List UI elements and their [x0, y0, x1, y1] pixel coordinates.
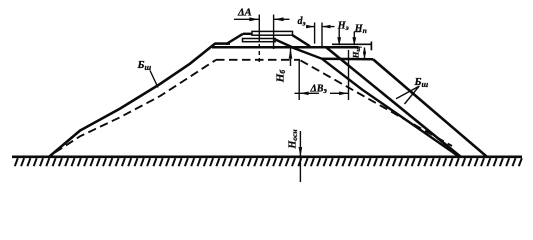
arrowhead d_e left — [322, 25, 330, 29]
old sleeper — [243, 39, 276, 42]
old profile dashed top — [216, 59, 300, 61]
brovka thin upper ledge — [332, 43, 371, 45]
svg-text:Бш: Бш — [414, 76, 429, 89]
step stub — [370, 42, 372, 51]
svg-text:Нп: Нп — [354, 23, 367, 35]
arrowhead dA right — [249, 17, 259, 21]
dim dA lines — [234, 18, 290, 20]
arrowhead H_shch down — [363, 53, 366, 59]
ground hatching — [15, 158, 522, 166]
axis 1 old — [258, 15, 260, 43]
svg-text:ΔА: ΔА — [237, 8, 252, 19]
arrowhead dBe left — [300, 92, 309, 96]
dim dBe line — [295, 92, 349, 94]
leader Bsh right fork — [396, 86, 420, 104]
dim d_e lines — [306, 26, 335, 28]
arrowhead dBe right — [339, 92, 348, 96]
H_b arrow shaft — [290, 48, 292, 66]
arrowhead H_shch up — [363, 47, 366, 53]
ledge L3 — [322, 58, 373, 61]
svg-text:dэ: dэ — [298, 16, 306, 28]
old profile dashed left slope — [55, 60, 216, 153]
svg-text:Бш: Бш — [137, 59, 152, 72]
svg-text:Нб: Нб — [275, 70, 288, 84]
subgrade top line — [212, 46, 359, 49]
H_p arrow shaft — [354, 32, 360, 44]
left bench — [215, 42, 231, 45]
new prism right slope — [293, 35, 311, 46]
dim d_e ext lines — [315, 23, 322, 48]
new sleeper — [252, 31, 293, 35]
H_shch arrow shaft — [364, 48, 366, 59]
inner long slope from junction — [292, 47, 460, 157]
arrowhead d_e right — [306, 25, 314, 29]
arrowhead H_e down — [337, 37, 341, 46]
dim dBe ext lines — [299, 50, 348, 100]
svg-text:ΔВэ: ΔВэ — [310, 83, 328, 95]
H_osn axis — [299, 131, 301, 182]
old profile dashed right slope — [301, 60, 453, 146]
svg-text:Носн: Носн — [288, 129, 300, 149]
arrowhead dA left — [274, 17, 284, 21]
H_e arrow shaft — [338, 29, 340, 44]
leader Bsh left — [150, 71, 158, 88]
arrowhead H_osn down — [299, 147, 303, 158]
arrowhead H_b up — [289, 48, 293, 59]
new left slope — [49, 44, 215, 157]
arrowhead H_p down — [352, 37, 356, 46]
svg-text:Нэ: Нэ — [337, 20, 349, 32]
old prism right slope — [275, 39, 292, 47]
middle right slope — [326, 47, 462, 157]
new prism left slope — [226, 34, 243, 44]
axis 2 new — [273, 15, 275, 50]
outer right slope — [373, 59, 488, 157]
prism plateau — [243, 33, 252, 35]
ground line — [12, 156, 522, 159]
